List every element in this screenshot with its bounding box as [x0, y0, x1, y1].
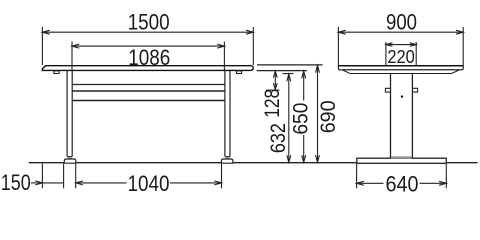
svg-text:632: 632	[267, 123, 290, 153]
svg-text:650: 650	[290, 103, 313, 135]
svg-text:1500: 1500	[128, 9, 170, 34]
svg-text:1086: 1086	[128, 45, 170, 70]
svg-text:150: 150	[1, 170, 31, 195]
svg-text:1040: 1040	[128, 171, 170, 196]
svg-text:128: 128	[261, 89, 284, 118]
svg-text:640: 640	[386, 172, 419, 197]
svg-text:690: 690	[317, 100, 340, 133]
svg-text:900: 900	[386, 9, 417, 34]
svg-text:220: 220	[387, 47, 415, 67]
